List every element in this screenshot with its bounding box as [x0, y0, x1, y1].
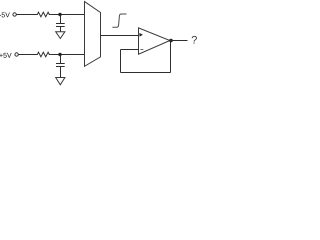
node (output junction)	[169, 39, 173, 43]
wire	[18, 54, 36, 56]
op-amp U2	[139, 28, 170, 54]
capacitor C2	[56, 63, 65, 65]
node (junction bottom)	[58, 53, 61, 56]
analog switch U1 (mux trapezoid)	[85, 2, 101, 67]
wire	[60, 27, 62, 32]
wire	[51, 14, 85, 16]
resistor R1	[36, 12, 51, 17]
wire (feedback bottom)	[121, 72, 171, 74]
wire (mux output to op-amp)	[101, 35, 139, 37]
step waveform symbol	[112, 14, 126, 27]
wire (output)	[170, 40, 188, 42]
wire	[60, 15, 62, 24]
op-amp - input dash	[140, 49, 143, 51]
node (junction top)	[58, 13, 61, 16]
wire	[60, 55, 62, 64]
net label -5V	[0, 12, 10, 17]
ground (top)	[56, 32, 65, 39]
wire (feedback to inverting input)	[121, 49, 139, 51]
terminal (top input)	[13, 13, 16, 16]
wire	[16, 14, 36, 16]
terminal (bottom input)	[15, 53, 18, 56]
resistor R2	[36, 52, 51, 57]
label ?	[192, 36, 197, 44]
capacitor C1	[56, 23, 65, 25]
wire	[60, 67, 62, 78]
net label +5V	[0, 53, 12, 58]
wire	[51, 54, 85, 56]
ground (bottom)	[56, 78, 65, 85]
wire (feedback right vertical)	[170, 41, 172, 73]
op-amp + input arrowhead	[139, 33, 143, 37]
wire (feedback left vertical)	[120, 50, 122, 73]
